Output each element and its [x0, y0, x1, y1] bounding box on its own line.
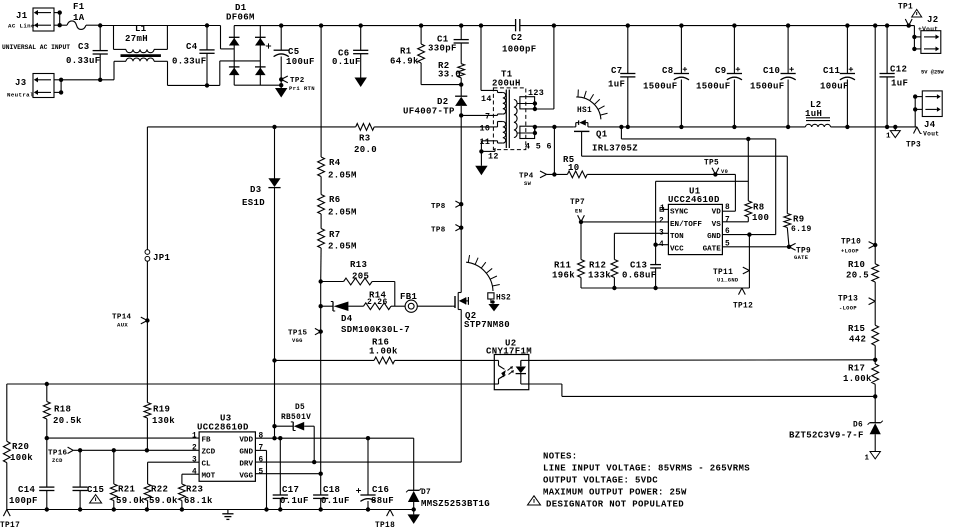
resistor R19 — [144, 403, 175, 427]
svg-text:TP15: TP15 — [288, 330, 308, 338]
wire J3 stubs — [54, 78, 63, 95]
svg-text:100uF: 100uF — [286, 57, 315, 67]
test point TP18 — [375, 510, 395, 528]
svg-text:10: 10 — [568, 163, 580, 173]
svg-text:UNIVERSAL AC INPUT: UNIVERSAL AC INPUT — [2, 44, 70, 51]
svg-text:DRV: DRV — [239, 461, 253, 469]
capacitor C17 — [273, 438, 309, 509]
transformer T1 — [492, 70, 526, 150]
wire VD to U1 pin 8 — [715, 174, 735, 211]
test point TP10 — [841, 239, 877, 255]
svg-text:123: 123 — [528, 88, 544, 98]
connector J4 (-Vout) — [919, 91, 942, 138]
T1 pin 10 lead — [493, 122, 497, 127]
svg-text:VCC: VCC — [670, 246, 684, 254]
wire U1 local ground line — [581, 235, 749, 291]
svg-text:MOT: MOT — [202, 473, 216, 481]
transistor Q2 (STP7NM80 cascode MOSFET) — [453, 293, 510, 331]
capacitor C3 — [66, 26, 108, 80]
connector J1 (AC Line) — [8, 8, 54, 31]
capacitor C9 — [696, 26, 742, 127]
svg-text:0.33uF: 0.33uF — [66, 56, 101, 66]
svg-text:64.9k: 64.9k — [390, 57, 419, 67]
ferrite bead FB1 — [400, 292, 418, 312]
capacitor C7 — [608, 26, 635, 127]
svg-text:R20: R20 — [12, 442, 29, 452]
svg-text:R13: R13 — [350, 260, 367, 270]
svg-text:U1_GND: U1_GND — [717, 278, 739, 284]
wire secondary high to +5V rail — [535, 26, 554, 109]
svg-text:TP2: TP2 — [290, 77, 305, 85]
wire CL pin line — [148, 461, 200, 463]
wire VDD line — [255, 436, 413, 440]
svg-text:1uH: 1uH — [805, 109, 822, 119]
wire U1 GATE line — [722, 245, 791, 249]
svg-text:8: 8 — [259, 433, 264, 441]
test point TP15 — [288, 328, 323, 344]
resistor R9 — [784, 213, 812, 247]
svg-text:DF06M: DF06M — [226, 13, 255, 23]
svg-text:2: 2 — [192, 445, 197, 453]
label 5V@25W — [921, 70, 944, 76]
earth ground symbol — [222, 510, 233, 520]
svg-text:IRL3705Z: IRL3705Z — [592, 144, 638, 154]
capacitor C13 — [622, 245, 661, 288]
svg-text:R21: R21 — [118, 485, 136, 495]
svg-text:D3: D3 — [250, 185, 262, 195]
svg-text:130k: 130k — [152, 416, 175, 426]
wire switch rail to Q1 — [535, 125, 574, 129]
wire VCC net — [653, 181, 748, 247]
capacitor C6 — [332, 26, 368, 87]
resistor R14 — [364, 291, 392, 310]
wire to J2 — [912, 26, 921, 52]
wire U2 collector to loop divider — [529, 359, 875, 362]
notes text — [543, 452, 750, 510]
svg-text:SDM100K30L-7: SDM100K30L-7 — [341, 325, 410, 335]
T1 pin 7 lead — [495, 114, 498, 115]
test point TP11 — [713, 267, 749, 283]
net marker 1 (D6 anode) — [865, 452, 881, 463]
svg-text:ZCD: ZCD — [52, 458, 63, 464]
wire U3 GND to rail — [255, 450, 266, 509]
svg-text:D2: D2 — [437, 97, 449, 107]
svg-text:J2: J2 — [927, 15, 939, 25]
svg-text:R1: R1 — [400, 47, 412, 57]
wire TP4/R5 line — [519, 127, 715, 187]
svg-text:D4: D4 — [341, 314, 353, 324]
svg-text:EN/TOFF: EN/TOFF — [670, 221, 702, 229]
svg-text:0.33uF: 0.33uF — [172, 57, 207, 67]
wire FB pin line — [45, 436, 200, 440]
wire B+ vertical to startup divider — [320, 26, 322, 282]
svg-text:C15: C15 — [87, 485, 104, 495]
test point TP5 — [704, 160, 728, 177]
svg-text:D1: D1 — [235, 3, 247, 13]
wire Q2 source down to DRV — [460, 310, 462, 463]
wire bottom ground rail — [7, 507, 416, 511]
svg-text:R22: R22 — [151, 485, 168, 495]
svg-text:NOTES:: NOTES: — [543, 452, 578, 462]
svg-text:1.00k: 1.00k — [369, 347, 398, 357]
capacitor C8 — [643, 26, 689, 127]
wire R13 line — [319, 279, 395, 306]
resistor R12 — [588, 260, 618, 289]
svg-text:2.05M: 2.05M — [328, 242, 357, 252]
wire U1 ground-net jog — [621, 127, 775, 235]
resistor R17 — [843, 360, 879, 399]
svg-text:1uF: 1uF — [891, 79, 908, 89]
svg-text:1A: 1A — [73, 13, 85, 23]
svg-text:R7: R7 — [329, 230, 341, 240]
capacitor C1 — [428, 26, 469, 64]
capacitor C15 — [73, 450, 105, 509]
svg-text:1000pF: 1000pF — [502, 45, 537, 55]
svg-text:C3: C3 — [78, 42, 90, 52]
svg-text:TP8: TP8 — [431, 227, 446, 235]
T1 secondary pin box 1-2-3 — [517, 88, 544, 111]
wire JP1 column upper — [146, 127, 148, 249]
inductor L1 (common-mode choke) — [114, 24, 168, 61]
svg-text:GATE: GATE — [703, 246, 722, 254]
svg-text:MMSZ5253BT1G: MMSZ5253BT1G — [421, 499, 490, 509]
test point TP1 — [898, 4, 913, 28]
wire aux winding line — [147, 125, 493, 129]
svg-text:R18: R18 — [54, 405, 71, 415]
not-populated triangle at TP1 — [912, 9, 922, 17]
svg-text:0.1uF: 0.1uF — [321, 496, 350, 506]
resistor R23 — [179, 474, 214, 509]
diode D4 (schottky) — [331, 302, 410, 336]
wire Q1 gate line — [582, 131, 788, 213]
resistor R4 — [318, 157, 357, 181]
inductor L2 — [805, 100, 831, 127]
wire FB lower line — [7, 382, 495, 442]
svg-text:RB501V: RB501V — [281, 414, 311, 422]
svg-text:C17: C17 — [282, 485, 299, 495]
svg-text:33.0: 33.0 — [438, 70, 461, 80]
resistor R10 — [846, 245, 879, 301]
svg-text:EN: EN — [575, 209, 582, 215]
svg-text:SW: SW — [524, 181, 532, 187]
svg-text:FB: FB — [202, 437, 212, 445]
capacitor C12 — [880, 26, 909, 127]
svg-text:100uF: 100uF — [820, 82, 849, 92]
svg-text:SYNC: SYNC — [670, 209, 689, 217]
svg-text:R19: R19 — [153, 405, 170, 415]
wire output return rail (right of L2) — [831, 125, 917, 129]
svg-text:C8: C8 — [662, 66, 674, 76]
svg-text:ZCD: ZCD — [202, 449, 216, 457]
svg-text:196k: 196k — [552, 271, 575, 281]
svg-text:VGG: VGG — [239, 473, 253, 481]
svg-text:J3: J3 — [15, 78, 27, 88]
svg-text:TP7: TP7 — [570, 199, 585, 207]
svg-text:TP16: TP16 — [48, 450, 68, 458]
svg-text:TP8: TP8 — [431, 203, 446, 211]
connector J2 (+Vout) — [918, 15, 941, 53]
resistor R11 — [552, 222, 584, 288]
svg-text:VDD: VDD — [239, 437, 253, 445]
svg-text:1500uF: 1500uF — [696, 82, 731, 92]
svg-text:TP14: TP14 — [112, 314, 132, 322]
svg-text:330pF: 330pF — [428, 44, 457, 54]
heatsink HS1 — [576, 90, 607, 120]
svg-text:5V @25W: 5V @25W — [921, 70, 944, 76]
svg-text:7: 7 — [725, 217, 730, 225]
svg-text:59.0k: 59.0k — [116, 496, 145, 506]
svg-text:R4: R4 — [329, 158, 341, 168]
capacitor C2 (Y-cap in rail) — [502, 19, 537, 55]
svg-text:12: 12 — [488, 152, 499, 162]
wire gate drive line — [319, 304, 453, 308]
svg-text:AC Line: AC Line — [8, 23, 35, 30]
resistor R20 — [3, 441, 33, 509]
heatsink HS2 — [466, 255, 511, 302]
svg-text:TP1: TP1 — [898, 4, 913, 12]
svg-text:TP11: TP11 — [713, 269, 733, 277]
optocoupler U2 CNY17F1M — [486, 339, 532, 390]
svg-text:R15: R15 — [848, 324, 865, 334]
diode D6 (zener BZT52C3V9) — [789, 396, 883, 451]
svg-text:C2: C2 — [511, 33, 523, 43]
bridge rectifier D1 — [226, 3, 281, 85]
test point TP9 — [789, 243, 811, 261]
diode D2 — [403, 85, 467, 118]
T1 pin numbers — [480, 94, 499, 162]
svg-text:0.1uF: 0.1uF — [332, 57, 361, 67]
test point TP14 — [112, 314, 150, 329]
svg-text:UF4007-TP: UF4007-TP — [403, 107, 455, 117]
svg-text:C5: C5 — [288, 47, 300, 57]
svg-text:GATE: GATE — [794, 255, 809, 261]
U1 pin 1 stub — [660, 208, 668, 212]
label UNIVERSAL AC INPUT — [2, 44, 70, 51]
diode D5 (RB501V) — [275, 404, 315, 462]
capacitor C5 — [266, 26, 315, 88]
T1 secondary pin box 4-5-6 — [517, 125, 552, 152]
not-populated triangle at C15 — [90, 495, 102, 503]
wire U2 emitter line — [529, 384, 875, 396]
svg-text:7: 7 — [485, 112, 490, 122]
svg-text:D6: D6 — [853, 422, 863, 430]
test point TP3 — [906, 127, 921, 150]
svg-text:R23: R23 — [186, 485, 203, 495]
wire VGG column — [320, 282, 322, 474]
svg-text:100: 100 — [752, 213, 769, 223]
wire EN/TOFF line — [579, 220, 669, 224]
wire AC top rail segment A — [98, 23, 234, 49]
svg-text:88uF: 88uF — [371, 496, 394, 506]
wire VGG/R16 line — [272, 358, 494, 362]
svg-text:AUX: AUX — [117, 322, 128, 329]
svg-text:JP1: JP1 — [153, 253, 171, 263]
svg-text:FB1: FB1 — [400, 292, 418, 302]
svg-text:5: 5 — [259, 469, 264, 477]
svg-text:L1: L1 — [135, 24, 147, 34]
svg-text:R3: R3 — [359, 134, 371, 144]
ground arrow (primary return) — [275, 85, 287, 97]
T1 pin 14 lead — [481, 26, 498, 93]
svg-text:1.00k: 1.00k — [843, 374, 872, 384]
svg-text:UCC28610D: UCC28610D — [197, 423, 249, 433]
resistor R22 — [144, 462, 178, 509]
wire D3 column to VDD — [272, 360, 276, 438]
svg-text:R9: R9 — [793, 215, 805, 225]
svg-text:VD: VD — [712, 209, 722, 217]
resistor R3 — [354, 124, 377, 156]
svg-text:F1: F1 — [73, 2, 85, 12]
svg-text:VS: VS — [712, 221, 722, 229]
wire AC bottom path — [61, 61, 260, 88]
svg-text:1uF: 1uF — [608, 80, 625, 90]
T1 pin 11 lead — [479, 141, 497, 154]
svg-text:TP12: TP12 — [733, 303, 753, 311]
svg-text:442: 442 — [849, 335, 866, 345]
svg-text:4: 4 — [192, 469, 197, 477]
jumper JP1 — [145, 250, 171, 263]
svg-text:OUTPUT VOLTAGE: 5VDC: OUTPUT VOLTAGE: 5VDC — [543, 476, 658, 486]
svg-text:+Vout: +Vout — [918, 26, 938, 33]
resistor R6 — [318, 195, 357, 218]
svg-text:TP3: TP3 — [906, 142, 921, 150]
diode D3 — [242, 127, 281, 361]
svg-text:C9: C9 — [715, 66, 727, 76]
svg-text:6: 6 — [259, 457, 264, 465]
svg-text:4: 4 — [659, 241, 664, 249]
resistor R5 — [563, 155, 587, 178]
wire TON line — [614, 233, 668, 259]
svg-text:-LOOP: -LOOP — [839, 306, 857, 312]
svg-text:Pri RTN: Pri RTN — [289, 85, 315, 92]
wire switch-node vertical (D2/TP8/Q2) — [460, 115, 462, 292]
svg-text:GND: GND — [239, 449, 253, 457]
test point TP12 — [733, 288, 753, 311]
svg-text:HS2: HS2 — [496, 295, 511, 303]
svg-text:0.68uF: 0.68uF — [622, 271, 657, 281]
svg-text:C14: C14 — [18, 485, 36, 495]
svg-text:20.0: 20.0 — [354, 145, 377, 155]
svg-text:C18: C18 — [323, 485, 340, 495]
svg-text:+LOOP: +LOOP — [841, 249, 859, 255]
svg-text:8: 8 — [725, 204, 730, 212]
svg-text:4 5 6: 4 5 6 — [525, 142, 552, 152]
svg-text:UCC24610D: UCC24610D — [668, 195, 720, 205]
svg-text:TP18: TP18 — [375, 522, 395, 528]
svg-text:BZT52C3V9-7-F: BZT52C3V9-7-F — [789, 431, 864, 441]
svg-text:R17: R17 — [848, 364, 865, 374]
fuse F1 — [60, 2, 100, 29]
svg-text:MAXIMUM OUTPUT POWER: 25W: MAXIMUM OUTPUT POWER: 25W — [543, 488, 687, 498]
wire MOT pin line — [182, 473, 199, 475]
HS2 chassis tab — [488, 293, 500, 312]
svg-text:C7: C7 — [611, 66, 623, 76]
svg-text:100pF: 100pF — [9, 496, 38, 506]
svg-text:GND: GND — [707, 233, 721, 241]
wire VS line — [722, 221, 748, 223]
wire VGG pin line — [255, 472, 323, 476]
test point TP17 — [0, 510, 20, 528]
svg-text:10: 10 — [480, 124, 491, 134]
wire DC rail segment C (secondary +5V rail) — [520, 23, 915, 27]
svg-text:HS1: HS1 — [577, 107, 592, 115]
svg-text:R8: R8 — [753, 203, 765, 213]
svg-text:1: 1 — [886, 133, 891, 141]
wire DRV line — [255, 460, 461, 464]
svg-text:STP7NM80: STP7NM80 — [464, 320, 510, 330]
svg-text:C16: C16 — [372, 485, 389, 495]
test point TP8 (lower) — [431, 225, 463, 235]
svg-text:2.26: 2.26 — [367, 298, 388, 307]
svg-text:20.5k: 20.5k — [53, 416, 82, 426]
resistor R7 — [318, 229, 357, 252]
capacitor C14 — [9, 438, 54, 509]
svg-text:0.1uF: 0.1uF — [280, 496, 309, 506]
resistor R15 — [848, 301, 879, 362]
svg-text:C11: C11 — [823, 66, 841, 76]
svg-text:CNY17F1M: CNY17F1M — [486, 347, 532, 357]
test point TP8 (upper) — [431, 201, 463, 211]
svg-text:100k: 100k — [10, 453, 33, 463]
svg-text:R6: R6 — [329, 195, 341, 205]
svg-text:-Vout: -Vout — [919, 131, 939, 138]
wire J1 stubs — [54, 10, 62, 27]
resistor R21 — [110, 450, 145, 509]
wire DC+ rail segment B — [234, 23, 556, 27]
T1 pin 12 lead and ground arrow — [475, 148, 495, 175]
capacitor C10 — [750, 26, 796, 127]
wire secondary return rail — [590, 125, 805, 129]
resistor R18 — [43, 384, 82, 438]
resistor R16 — [369, 338, 398, 364]
svg-text:7: 7 — [259, 445, 264, 453]
svg-text:C12: C12 — [890, 65, 907, 75]
capacitor C16 — [356, 438, 394, 509]
svg-text:14: 14 — [481, 94, 492, 104]
svg-text:D7: D7 — [421, 489, 431, 497]
test point TP2 — [279, 76, 315, 92]
svg-text:TP17: TP17 — [0, 522, 20, 528]
svg-text:R12: R12 — [589, 261, 606, 271]
ground arrow below D7 — [408, 510, 420, 524]
wire ZCD pin line — [73, 448, 199, 452]
svg-text:D5: D5 — [295, 404, 305, 412]
svg-text:C13: C13 — [630, 261, 647, 271]
svg-text:1: 1 — [865, 455, 870, 463]
svg-text:DESIGNATOR NOT POPULATED: DESIGNATOR NOT POPULATED — [546, 500, 684, 510]
capacitor C11 — [820, 26, 855, 127]
connector J3 (Neutral) — [7, 74, 54, 99]
svg-text:20.5: 20.5 — [846, 271, 869, 281]
wire JP1 column lower — [146, 261, 148, 450]
svg-text:ES1D: ES1D — [242, 198, 265, 208]
capacitor C18 — [313, 474, 350, 510]
svg-text:1500uF: 1500uF — [750, 82, 785, 92]
svg-text:Neutral: Neutral — [7, 92, 34, 99]
svg-text:R10: R10 — [848, 260, 865, 270]
resistor R1 — [390, 26, 463, 87]
transistor Q1 (IRL3705Z sync FET) — [574, 120, 638, 154]
IC U1 UCC24610 — [659, 187, 730, 255]
svg-text:J1: J1 — [16, 11, 28, 21]
capacitor C4 — [172, 26, 215, 86]
svg-text:CL: CL — [202, 461, 212, 469]
svg-text:LINE INPUT VOLTAGE: 85VRMS - 2: LINE INPUT VOLTAGE: 85VRMS - 265VRMS — [543, 464, 750, 474]
resistor R13 — [344, 260, 373, 285]
svg-text:TP5: TP5 — [704, 160, 719, 168]
svg-text:205: 205 — [352, 272, 369, 282]
svg-text:Q1: Q1 — [596, 130, 608, 140]
